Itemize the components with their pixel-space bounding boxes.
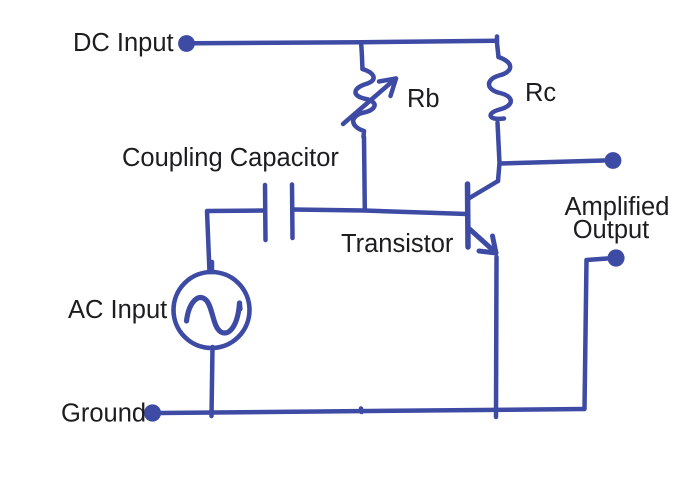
svg-text:Rc: Rc [525, 79, 556, 107]
svg-text:Transistor: Transistor [341, 230, 454, 258]
svg-text:Rb: Rb [407, 85, 440, 113]
svg-text:DC Input: DC Input [73, 29, 174, 57]
svg-text:Coupling Capacitor: Coupling Capacitor [122, 144, 339, 172]
svg-text:AC Input: AC Input [68, 296, 167, 324]
svg-text:Ground: Ground [61, 400, 146, 428]
svg-text:Output: Output [573, 216, 650, 244]
